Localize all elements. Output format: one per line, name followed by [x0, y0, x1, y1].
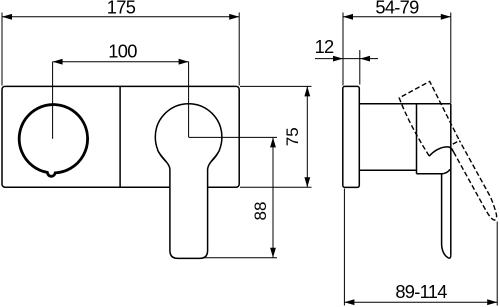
svg-text:89-114: 89-114	[395, 281, 447, 302]
knob circle (volume control) with indicator notch dip	[19, 105, 87, 177]
solid lever stick	[442, 174, 451, 258]
chamfer to stick	[443, 169, 450, 173]
dashed lever: blade bottom edge visible stub	[453, 141, 460, 145]
dim 89-114	[344, 301, 497, 303]
lever shaft white mask	[158, 150, 220, 259]
plate divider line	[119, 86, 121, 187]
front view: wall plate	[2, 86, 239, 187]
svg-text:88: 88	[251, 202, 270, 221]
dashed lever: blade (left, top, right edges)	[399, 81, 459, 156]
svg-text:100: 100	[108, 41, 137, 62]
dim 54-79	[343, 16, 451, 18]
crest wave (lever top, closed position)	[429, 147, 453, 156]
dim 88	[272, 137, 274, 257]
lever shaft outline	[158, 150, 220, 259]
horizontal centerline lever	[189, 136, 277, 138]
dim 175	[2, 16, 239, 18]
dim 100	[53, 61, 189, 63]
svg-text:75: 75	[283, 127, 302, 146]
centerline into knob	[52, 62, 54, 139]
body top line	[359, 103, 451, 105]
dashed lever: stick with rounded tip	[454, 141, 497, 221]
centerline into lever head	[188, 62, 190, 138]
dim 75	[240, 85, 312, 87]
handle base box left edge	[416, 104, 418, 174]
lever head circle	[155, 104, 222, 171]
right edge: box + stick	[450, 104, 452, 256]
dim 12	[315, 58, 343, 60]
body bottom line	[359, 169, 416, 171]
svg-text:54-79: 54-79	[375, 0, 419, 18]
side wall plate	[343, 86, 360, 187]
svg-text:12: 12	[315, 36, 334, 57]
svg-text:175: 175	[107, 0, 136, 18]
handle base box bottom	[417, 173, 444, 175]
